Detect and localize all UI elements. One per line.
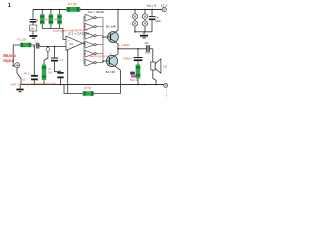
svg-text:100u: 100u: [155, 20, 161, 23]
svg-text:1m: 1m: [22, 78, 25, 81]
svg-text:IC1: IC1: [70, 43, 74, 46]
svg-text:BC-148: BC-148: [106, 24, 116, 28]
svg-text:10K: 10K: [48, 71, 53, 75]
svg-text:IC2 = 40106: IC2 = 40106: [88, 10, 105, 14]
svg-text:Sg + 9 ... 12 V: Sg + 9 ... 12 V: [147, 3, 168, 7]
svg-text:Input: Input: [3, 58, 15, 63]
svg-text:VR: VR: [48, 67, 52, 71]
svg-text:470uF+: 470uF+: [123, 56, 133, 60]
svg-text:bestengineeringprojects.com: bestengineeringprojects.com: [89, 54, 109, 58]
svg-text:4k7 R9: 4k7 R9: [68, 2, 77, 6]
svg-text:1: 1: [8, 3, 11, 9]
svg-text:R7 56: R7 56: [84, 86, 91, 90]
svg-text:LS: LS: [164, 65, 168, 69]
svg-text:C2: C2: [60, 58, 64, 62]
svg-text:R1 10K: R1 10K: [18, 38, 27, 42]
svg-text:100n: 100n: [145, 51, 151, 54]
svg-text:IC1 = CA3130: IC1 = CA3130: [68, 32, 89, 36]
svg-text:SK 138: SK 138: [106, 70, 116, 74]
svg-text:R10 10: R10 10: [130, 78, 139, 82]
svg-text:10n: 10n: [30, 26, 35, 30]
svg-text:+ L 96uR: + L 96uR: [119, 43, 130, 47]
